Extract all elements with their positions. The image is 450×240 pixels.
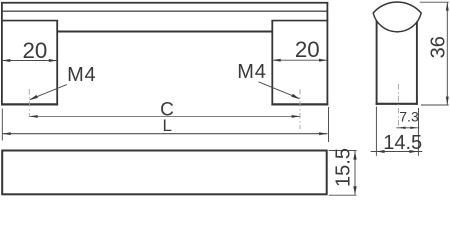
svg-text:20: 20 [22,38,47,63]
svg-text:20: 20 [295,37,320,62]
svg-text:M4: M4 [237,61,266,83]
svg-text:M4: M4 [67,64,96,86]
svg-text:36: 36 [427,36,449,58]
svg-text:7.3: 7.3 [399,108,419,124]
svg-text:L: L [162,116,171,135]
svg-text:15.5: 15.5 [332,148,354,187]
svg-text:14.5: 14.5 [383,132,422,154]
